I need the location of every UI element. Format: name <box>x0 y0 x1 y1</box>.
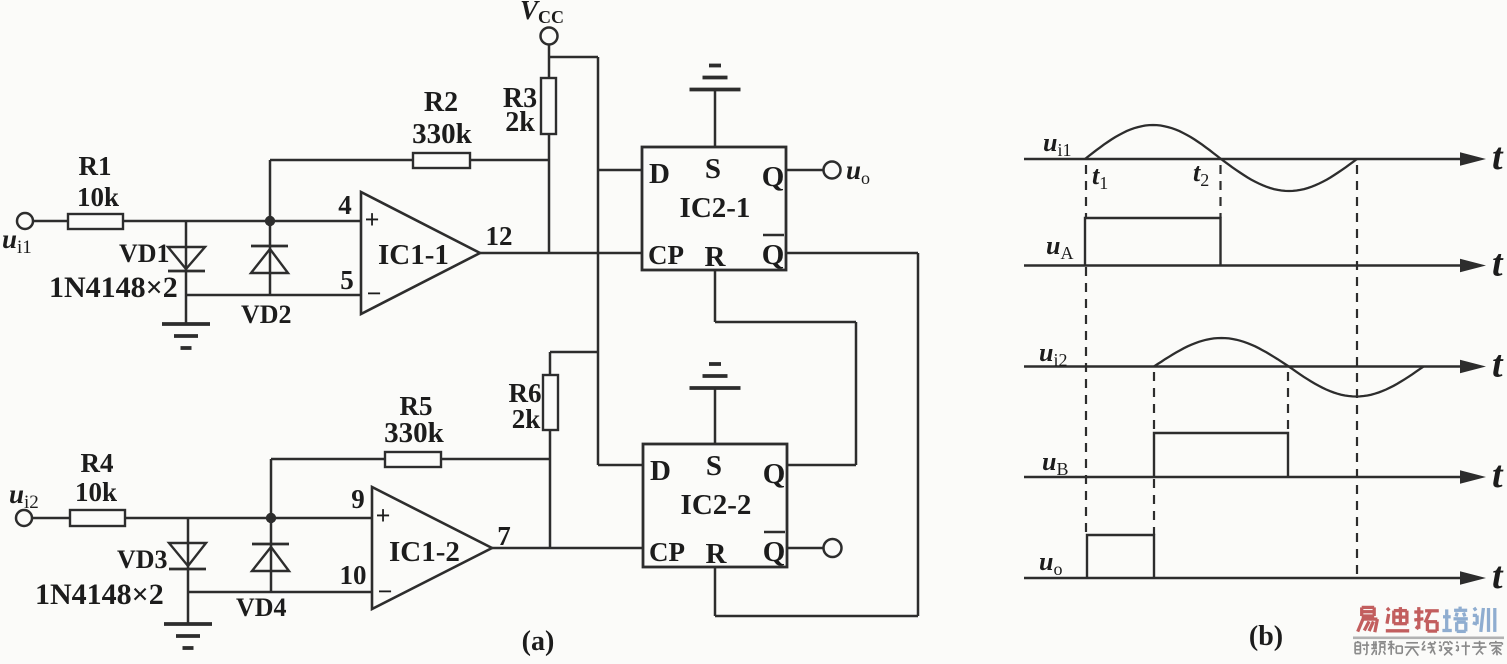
svg-text:330k: 330k <box>412 118 473 150</box>
svg-text:S: S <box>705 153 721 185</box>
waveform u_i1 sine <box>1085 125 1357 191</box>
ground above IC2-2 (S input) <box>714 388 717 444</box>
dashed x1154 upper <box>1153 372 1155 433</box>
svg-text:IC1-1: IC1-1 <box>378 239 449 271</box>
dashed t1 upper <box>1085 165 1087 218</box>
waveform u_i2 sine <box>1154 338 1424 397</box>
wire u_i1 main (to op-amp + input) <box>33 220 361 223</box>
resistor R2 330k <box>413 153 470 168</box>
svg-text:Q: Q <box>763 458 786 490</box>
wire R6 top lead <box>549 352 552 375</box>
wire R3 lead to output node <box>548 134 551 253</box>
resistor R4 <box>70 510 125 526</box>
dashed x1154 lower <box>1153 479 1155 535</box>
svg-text:VD3: VD3 <box>117 545 168 574</box>
wire Qbar IC2-1 to IC2-2 R: horizontal <box>786 252 918 255</box>
svg-text:7: 7 <box>497 521 511 551</box>
resistor R3 2k <box>541 78 556 134</box>
svg-text:R4: R4 <box>81 448 114 478</box>
wire D input IC2-1 <box>598 169 642 172</box>
svg-text:S: S <box>706 450 722 482</box>
svg-text:R: R <box>706 538 728 570</box>
op-amp IC1-2 <box>372 487 492 609</box>
wire feedback vertical to R2 line <box>269 160 272 221</box>
wire lower (op-amp2 - input) <box>188 591 372 594</box>
wire Q output to terminal <box>786 169 824 172</box>
svg-text:5: 5 <box>340 265 354 295</box>
svg-text:t: t <box>1492 454 1504 496</box>
wire feedback horizontal through R2 <box>270 159 549 162</box>
wire op-amp1 output to CP <box>480 252 642 255</box>
svg-text:R1: R1 <box>79 151 112 181</box>
watermark subtitle <box>1355 641 1369 655</box>
svg-text:t: t <box>1492 136 1504 178</box>
svg-text:10: 10 <box>340 560 367 590</box>
wire R stem IC2-2 <box>714 567 717 616</box>
svg-text:+: + <box>365 205 380 234</box>
axis u_i1 with arrow <box>1024 158 1464 160</box>
waveform u_B pulse <box>1154 433 1288 477</box>
svg-text:t: t <box>1492 344 1504 386</box>
wire D input IC2-2 <box>598 464 643 467</box>
svg-text:IC2-2: IC2-2 <box>681 489 752 521</box>
svg-text:12: 12 <box>486 221 513 251</box>
svg-text:−: − <box>367 279 382 308</box>
svg-text:Q: Q <box>762 161 785 193</box>
dashed x1357 full <box>1356 165 1358 578</box>
svg-text:(b): (b) <box>1249 621 1283 652</box>
diode VD4 <box>270 518 273 592</box>
svg-text:VD4: VD4 <box>236 593 287 622</box>
dashed x1288 <box>1287 372 1289 433</box>
axis u_i2 with arrow <box>1024 365 1464 367</box>
svg-text:4: 4 <box>338 190 352 220</box>
svg-text:2k: 2k <box>505 107 535 138</box>
flip-flop IC2-2 <box>643 444 787 567</box>
svg-text:R: R <box>705 241 727 273</box>
op-amp IC1-1 <box>361 192 480 314</box>
wire Qbar IC2-2 to terminal <box>787 547 824 550</box>
node u_i1 input terminal <box>17 213 33 229</box>
wire vertical bus x598 (Vcc to D inputs) <box>597 57 600 465</box>
svg-text:CP: CP <box>649 537 685 567</box>
diode VD1 <box>185 221 188 324</box>
svg-text:1N4148×2: 1N4148×2 <box>35 578 164 611</box>
ground below VD3 <box>164 622 212 626</box>
node u_i2 input terminal <box>16 510 32 526</box>
wire R6 bottom lead to output node <box>549 430 552 548</box>
power Vcc terminal <box>541 28 558 45</box>
wire Vcc branch to right vertical <box>549 56 598 59</box>
svg-text:−: − <box>378 577 393 606</box>
flip-flop IC2-1 <box>642 147 786 270</box>
wire Q output IC2-2 <box>787 464 856 467</box>
wire lower (to op-amp - input) <box>186 294 361 297</box>
wire Vcc stem <box>548 45 551 79</box>
svg-text:9: 9 <box>351 484 365 514</box>
svg-text:10k: 10k <box>77 182 119 212</box>
svg-text:CP: CP <box>648 240 684 270</box>
wire Qbar vertical bus x918 <box>917 253 920 616</box>
resistor R6 2k <box>543 375 558 430</box>
wire R stem IC2-1 down <box>714 270 717 322</box>
svg-text:IC1-2: IC1-2 <box>389 536 460 568</box>
wire feedback horizontal through R5 <box>271 458 550 461</box>
node Qbar terminal <box>824 539 842 557</box>
svg-text:VD2: VD2 <box>241 300 292 329</box>
axis u_A with arrow <box>1024 264 1464 266</box>
node junction at VD4/feedback <box>266 513 276 523</box>
svg-text:1N4148×2: 1N4148×2 <box>49 271 178 304</box>
svg-text:D: D <box>650 455 671 487</box>
dashed t2 <box>1219 165 1221 218</box>
svg-text:+: + <box>376 501 391 530</box>
diode VD3 <box>187 518 190 624</box>
wire R6 branch horizontal y352 <box>550 351 598 354</box>
svg-text:t: t <box>1492 555 1504 597</box>
svg-text:(a): (a) <box>522 626 555 657</box>
wire op-amp2 output to CP <box>492 547 643 550</box>
ground below VD1 <box>162 322 210 326</box>
wire feedback vertical lower <box>270 459 273 518</box>
resistor R1 <box>68 214 123 229</box>
resistor R5 330k <box>385 452 441 467</box>
diode VD2 <box>269 221 272 295</box>
axis u_o with arrow <box>1024 577 1464 579</box>
wire bottom horizontal y616 <box>715 615 918 618</box>
watermark logo yiditu peixun <box>1358 607 1378 632</box>
ground above IC2-1 (S input) <box>714 90 717 147</box>
watermark rule <box>1353 637 1504 640</box>
waveform u_A pulse <box>1085 218 1221 266</box>
axis u_B with arrow <box>1024 476 1464 478</box>
waveform u_o pulse <box>1087 535 1154 578</box>
svg-text:R2: R2 <box>424 87 458 118</box>
wire u_i2 main <box>32 517 372 520</box>
svg-text:Q: Q <box>763 536 786 568</box>
svg-text:IC2-1: IC2-1 <box>680 192 751 224</box>
wire vertical x856 to Q of IC2-2 <box>855 322 858 465</box>
node u_o terminal <box>824 162 841 179</box>
svg-text:VD1: VD1 <box>119 239 170 268</box>
node junction at VD2/feedback <box>265 216 275 226</box>
svg-text:Q: Q <box>762 239 785 271</box>
svg-text:10k: 10k <box>75 477 117 507</box>
svg-text:330k: 330k <box>384 417 445 449</box>
dashed t1 lower <box>1085 267 1087 533</box>
svg-text:2k: 2k <box>512 404 541 434</box>
svg-text:t: t <box>1492 243 1504 285</box>
svg-text:D: D <box>649 158 670 190</box>
wire horizontal y322 <box>715 321 856 324</box>
